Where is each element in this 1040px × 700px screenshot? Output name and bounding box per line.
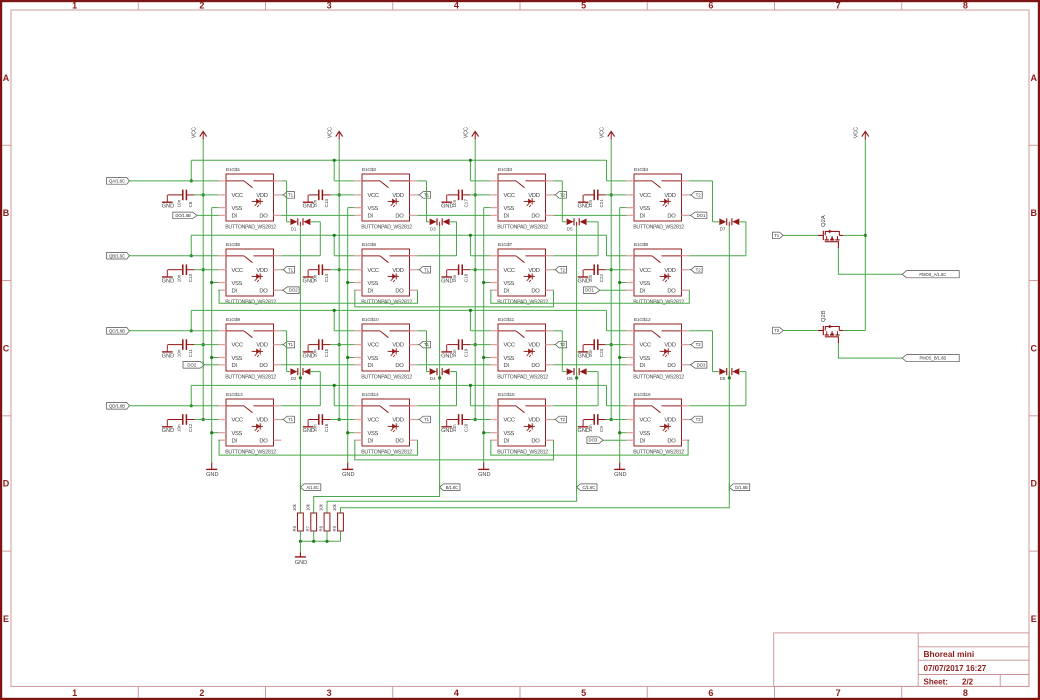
wire VCC pin net C10 to B1G$5 (194, 269, 218, 271)
dual diode D7 (719, 218, 739, 231)
svg-text:BUTTONPAD_WS2812: BUTTONPAD_WS2812 (361, 299, 412, 305)
wire D7 to B1G$8 switch (689, 222, 746, 256)
svg-text:VDD: VDD (664, 268, 675, 274)
svg-text:VCC: VCC (232, 268, 243, 274)
wire B1G$6 DO to B1G$5 DI (218, 290, 417, 303)
wire column C to R8 (327, 487, 577, 513)
svg-text:6: 6 (708, 688, 713, 698)
svg-text:8: 8 (963, 688, 968, 698)
svg-text:DO: DO (259, 438, 268, 444)
svg-text:BUTTONPAD_WS2812: BUTTONPAD_WS2812 (361, 449, 412, 455)
svg-text:VSS: VSS (504, 431, 515, 437)
svg-text:DI: DI (368, 288, 374, 294)
svg-text:D/1.6B: D/1.6B (735, 485, 748, 490)
svg-text:C: C (3, 343, 10, 353)
dual diode D8 (719, 368, 739, 381)
svg-text:C11: C11 (188, 349, 193, 358)
svg-text:GND: GND (295, 560, 307, 566)
svg-text:DO: DO (259, 363, 268, 369)
wire VCC pin net C20 to B1G$15 (470, 419, 490, 421)
svg-text:4: 4 (454, 1, 459, 11)
svg-text:C: C (1030, 343, 1037, 353)
svg-text:T2: T2 (560, 417, 566, 422)
wire D1 to B1G$5 switch (281, 222, 320, 256)
ground GND column 3 (478, 463, 490, 479)
svg-text:B1G$13: B1G$13 (226, 392, 243, 398)
svg-text:DO1: DO1 (585, 288, 594, 293)
svg-text:VCC: VCC (232, 418, 243, 424)
capacitor C13 10n (309, 190, 331, 208)
svg-text:GND: GND (162, 278, 174, 284)
svg-text:B1G$1: B1G$1 (226, 167, 241, 173)
svg-text:VDD: VDD (664, 343, 675, 349)
wire VCC pin net C13 to B1G$2 (330, 194, 354, 196)
svg-text:GND: GND (162, 204, 174, 210)
svg-text:D: D (3, 479, 10, 489)
svg-text:DO3: DO3 (697, 362, 706, 367)
svg-text:R8: R8 (319, 525, 324, 531)
wire D6 to B1G$15 switch (553, 372, 598, 406)
net label A/1.6C (300, 483, 320, 492)
svg-text:B1G$4: B1G$4 (634, 167, 649, 173)
ground GND at C11 (162, 345, 174, 360)
svg-text:BUTTONPAD_WS2812: BUTTONPAD_WS2812 (225, 224, 276, 230)
IC B1G$7 BUTTONPAD_WS2812 (490, 242, 553, 305)
wire B1G$1 VDD to T1 (281, 194, 283, 196)
svg-text:T1: T1 (288, 342, 294, 347)
wire resistor ground bus (299, 540, 341, 553)
dual diode D2 (290, 368, 310, 381)
svg-text:DI: DI (232, 438, 238, 444)
wire B1G$11 DO to B1G$12 DI (553, 364, 626, 366)
wire VCC pin net C23 to B1G$12 (606, 344, 627, 346)
svg-text:BUTTONPAD_WS2812: BUTTONPAD_WS2812 (225, 374, 276, 380)
net label T2 at B1G$3 (555, 192, 566, 199)
net label T1 at B1G$5 (283, 266, 294, 273)
net label T2 at B1G$16 (691, 416, 702, 423)
svg-text:D2: D2 (291, 376, 297, 381)
wire B1G$7 VDD to T2 (553, 269, 555, 271)
svg-text:T2: T2 (696, 417, 702, 422)
capacitor C15 10n (309, 339, 331, 357)
capacitor C18 10n (447, 264, 470, 282)
svg-text:VSS: VSS (504, 206, 515, 212)
svg-text:VSS: VSS (368, 356, 379, 362)
wire Q2B drain to PMOS_B (838, 343, 902, 358)
svg-text:Q2A: Q2A (821, 215, 827, 227)
svg-text:C8: C8 (188, 201, 193, 207)
wire column sense line D (728, 226, 731, 487)
svg-text:VSS: VSS (504, 356, 515, 362)
wire B1G$1 DO to B1G$2 DI (281, 214, 354, 216)
svg-text:VDD: VDD (392, 418, 403, 424)
svg-text:BUTTONPAD_WS2812: BUTTONPAD_WS2812 (497, 449, 548, 455)
svg-text:VCC: VCC (504, 418, 515, 424)
svg-text:B1G$7: B1G$7 (498, 242, 513, 248)
svg-text:VDD: VDD (528, 268, 539, 274)
dual diode D6 (567, 368, 587, 381)
wire column sense line B (438, 226, 441, 487)
net label T2 at B1G$12 (691, 341, 702, 348)
svg-text:B1G$5: B1G$5 (226, 242, 241, 248)
svg-text:C17: C17 (464, 199, 469, 208)
svg-text:T1: T1 (288, 267, 294, 272)
net label C/1.6C (577, 483, 597, 492)
resistor R8 10k (319, 503, 330, 541)
svg-text:B1G$2: B1G$2 (362, 167, 377, 173)
net label B/1.6C (440, 483, 460, 492)
svg-text:DO: DO (395, 214, 404, 220)
wire column A to R6 (299, 487, 301, 513)
svg-text:10n: 10n (176, 274, 181, 282)
resistor R7 10k (305, 503, 316, 541)
svg-text:2/2: 2/2 (962, 677, 974, 686)
ground GND at C21 (577, 195, 589, 210)
wire B1G$4 VDD to T2 (689, 194, 691, 196)
svg-text:BUTTONPAD_WS2812: BUTTONPAD_WS2812 (633, 374, 684, 380)
resistor R6 10k (292, 503, 303, 541)
svg-text:C9: C9 (599, 426, 604, 432)
svg-text:T2: T2 (560, 267, 566, 272)
svg-text:10k: 10k (332, 503, 337, 511)
svg-text:DI: DI (640, 363, 646, 369)
svg-text:VCC: VCC (328, 127, 334, 138)
dual diode D3 (430, 218, 450, 231)
svg-text:BUTTONPAD_WS2812: BUTTONPAD_WS2812 (361, 374, 412, 380)
svg-text:VCC: VCC (368, 268, 379, 274)
svg-text:E: E (3, 614, 9, 624)
svg-text:GND: GND (162, 428, 174, 434)
svg-text:8: 8 (963, 1, 968, 11)
svg-text:B1G$10: B1G$10 (362, 317, 379, 323)
wire VSS chain column 1 (210, 208, 218, 463)
svg-text:E: E (1031, 614, 1037, 624)
ground GND at C23 (577, 345, 589, 360)
wire VCC pin net C9 to B1G$16 (606, 419, 627, 421)
svg-text:D4: D4 (430, 376, 436, 381)
svg-text:BUTTONPAD_WS2812: BUTTONPAD_WS2812 (225, 299, 276, 305)
svg-text:10n: 10n (176, 424, 181, 432)
svg-text:DO2: DO2 (187, 362, 196, 367)
svg-text:DI: DI (504, 438, 510, 444)
svg-text:QA/1.6C: QA/1.6C (109, 179, 125, 184)
svg-text:10n: 10n (176, 199, 181, 207)
svg-text:3: 3 (327, 688, 332, 698)
ground GND column 4 (614, 463, 626, 479)
svg-text:C14: C14 (324, 273, 329, 282)
wire B1G$9 VDD to T1 (281, 344, 283, 346)
svg-text:VCC: VCC (232, 193, 243, 199)
wire B1G$3 switch to D5 (553, 181, 566, 222)
wire VCC pin net C19 to B1G$11 (470, 344, 490, 346)
svg-text:GND: GND (577, 204, 589, 210)
power VCC symbol 4 (600, 127, 615, 140)
ground GND column 2 (342, 463, 354, 479)
IC B1G$1 BUTTONPAD_WS2812 (218, 167, 281, 230)
svg-text:DO: DO (531, 438, 540, 444)
svg-text:GND: GND (302, 353, 314, 359)
svg-text:VCC: VCC (600, 127, 606, 138)
svg-text:2: 2 (199, 1, 204, 11)
ground GND at C10 (162, 270, 174, 285)
svg-text:DI: DI (368, 363, 374, 369)
svg-text:C21: C21 (599, 199, 604, 208)
svg-text:R9: R9 (332, 525, 337, 531)
svg-text:VDD: VDD (256, 343, 267, 349)
wire column D to R9 (341, 487, 730, 513)
svg-text:T2: T2 (696, 193, 702, 198)
IC B1G$13 BUTTONPAD_WS2812 (218, 392, 281, 455)
wire VCC column 2 vertical (338, 140, 341, 421)
ground GND at C22 (577, 270, 589, 285)
capacitor C21 10n (584, 190, 606, 208)
svg-text:DO: DO (395, 363, 404, 369)
svg-text:VDD: VDD (664, 193, 675, 199)
wire VCC column 3 vertical (474, 140, 477, 421)
svg-text:D7: D7 (720, 226, 726, 231)
svg-text:VSS: VSS (232, 281, 243, 287)
svg-text:2: 2 (199, 688, 204, 698)
wire B1G$5 DO to DO2 label (281, 289, 284, 291)
svg-text:VCC: VCC (640, 418, 651, 424)
power VCC symbol 3 (464, 127, 479, 140)
wire VCC pin net C18 to B1G$7 (470, 269, 490, 271)
wire B1G$6 VDD to T1 (417, 269, 419, 271)
wire B1G$7 DO to B1G$6 DI (354, 290, 553, 307)
svg-text:VSS: VSS (368, 206, 379, 212)
svg-text:B1G$16: B1G$16 (634, 392, 651, 398)
svg-text:Bhoreal mini: Bhoreal mini (924, 649, 975, 659)
svg-text:BUTTONPAD_WS2812: BUTTONPAD_WS2812 (361, 224, 412, 230)
svg-text:B1G$14: B1G$14 (362, 392, 379, 398)
capacitor C10 10n (168, 264, 195, 282)
svg-text:DI: DI (640, 438, 646, 444)
svg-text:T1: T1 (774, 233, 780, 238)
svg-text:VDD: VDD (256, 418, 267, 424)
svg-text:C/1.6C: C/1.6C (582, 485, 595, 490)
wire D5 to B1G$7 switch (553, 222, 598, 256)
resistor R9 10k (332, 503, 343, 541)
svg-text:VCC: VCC (368, 193, 379, 199)
ground GND at C12 (162, 420, 174, 435)
svg-text:VCC: VCC (640, 268, 651, 274)
capacitor C16 10n (309, 414, 331, 432)
capacitor C12 10n (168, 414, 195, 432)
IC B1G$10 BUTTONPAD_WS2812 (354, 317, 417, 380)
svg-text:VCC: VCC (192, 127, 198, 138)
ground GND at C16 (302, 420, 314, 435)
capacitor C23 10n (584, 339, 606, 357)
svg-text:GND: GND (577, 428, 589, 434)
net label QB/1.6C (107, 252, 130, 259)
wire B1G$10 switch to D4 (417, 331, 429, 372)
net label QC/1.6B (107, 328, 130, 335)
svg-text:DO: DO (531, 214, 540, 220)
wire VCC pin net C11 to B1G$9 (194, 344, 218, 346)
svg-text:GND: GND (342, 472, 354, 478)
ground GND at C18 (441, 270, 453, 285)
IC B1G$11 BUTTONPAD_WS2812 (490, 317, 553, 380)
wire B1G$8 VDD to T2 (689, 269, 691, 271)
svg-text:6: 6 (708, 1, 713, 11)
svg-text:VCC: VCC (368, 418, 379, 424)
ground GND at resistors (295, 553, 307, 566)
svg-text:DO: DO (259, 214, 268, 220)
net label QA/1.6C (107, 178, 130, 185)
svg-text:DO: DO (667, 363, 676, 369)
svg-text:GND: GND (441, 204, 453, 210)
net label PMOS_A/1.6C (902, 271, 959, 278)
svg-text:GND: GND (614, 472, 626, 478)
svg-text:1: 1 (72, 688, 77, 698)
IC B1G$12 BUTTONPAD_WS2812 (626, 317, 689, 380)
svg-text:VDD: VDD (392, 268, 403, 274)
svg-text:T2: T2 (696, 267, 702, 272)
svg-text:DO: DO (531, 288, 540, 294)
svg-text:7: 7 (836, 688, 841, 698)
wire B1G$2 VDD to T1 (417, 194, 419, 196)
svg-text:10k: 10k (319, 503, 324, 511)
svg-text:VSS: VSS (640, 431, 651, 437)
svg-text:DO: DO (395, 288, 404, 294)
wire VSS chain column 4 (618, 208, 626, 463)
svg-text:VCC: VCC (504, 193, 515, 199)
svg-text:A: A (1030, 73, 1037, 83)
svg-text:VCC: VCC (464, 127, 470, 138)
svg-text:7: 7 (836, 1, 841, 11)
IC B1G$15 BUTTONPAD_WS2812 (490, 392, 553, 455)
svg-text:D5: D5 (567, 226, 573, 231)
svg-text:T1: T1 (424, 267, 430, 272)
svg-text:GND: GND (162, 353, 174, 359)
svg-text:T1: T1 (424, 417, 430, 422)
svg-text:BUTTONPAD_WS2812: BUTTONPAD_WS2812 (633, 224, 684, 230)
dual diode D1 (290, 218, 310, 231)
IC B1G$16 BUTTONPAD_WS2812 (626, 392, 689, 455)
svg-text:C20: C20 (464, 423, 469, 432)
svg-text:DI: DI (504, 363, 510, 369)
svg-text:VSS: VSS (504, 281, 515, 287)
svg-text:DO: DO (395, 438, 404, 444)
svg-text:DO/1.6B: DO/1.6B (175, 213, 191, 218)
svg-text:B1G$12: B1G$12 (634, 317, 651, 323)
svg-text:C23: C23 (599, 348, 604, 357)
svg-text:GND: GND (441, 353, 453, 359)
net label DO1 (row 2) (584, 287, 600, 294)
svg-text:D: D (1030, 479, 1037, 489)
wire VSS chain column 3 (482, 208, 490, 463)
svg-text:GND: GND (577, 353, 589, 359)
svg-text:BUTTONPAD_WS2812: BUTTONPAD_WS2812 (633, 299, 684, 305)
wire B1G$4 DO to DO1 label (689, 214, 692, 216)
wire VCC column 1 vertical (202, 140, 205, 421)
transistor Q2A PMOS (818, 215, 843, 248)
svg-text:A: A (3, 73, 10, 83)
wire row select bus QA (129, 159, 626, 183)
svg-text:VSS: VSS (232, 206, 243, 212)
net label T2 at Q2B gate (773, 327, 784, 334)
svg-text:VDD: VDD (256, 193, 267, 199)
wire B1G$12 DO to DO3 label (689, 364, 692, 366)
svg-text:BUTTONPAD_WS2812: BUTTONPAD_WS2812 (633, 449, 684, 455)
svg-text:VCC: VCC (640, 343, 651, 349)
svg-text:BUTTONPAD_WS2812: BUTTONPAD_WS2812 (497, 299, 548, 305)
svg-text:DO3: DO3 (588, 438, 597, 443)
IC B1G$2 BUTTONPAD_WS2812 (354, 167, 417, 230)
svg-text:DO: DO (667, 438, 676, 444)
svg-text:Sheet:: Sheet: (924, 677, 948, 686)
wire D3 to B1G$6 switch (417, 222, 456, 256)
wire VSS chain column 2 (346, 208, 354, 463)
svg-text:DI: DI (504, 214, 510, 220)
svg-text:VSS: VSS (368, 281, 379, 287)
capacitor C22 10n (584, 264, 606, 282)
capacitor C17 10n (447, 190, 470, 208)
svg-text:1: 1 (72, 1, 77, 11)
wire D2 to B1G$13 switch (281, 372, 320, 406)
svg-text:VCC: VCC (640, 193, 651, 199)
net label T2 at B1G$4 (691, 192, 702, 199)
power VCC symbol 2 (328, 127, 343, 140)
svg-text:4: 4 (454, 688, 459, 698)
wire B1G$3 VDD to T2 (553, 194, 555, 196)
dual diode D4 (430, 368, 450, 381)
wire row select bus QC (129, 309, 626, 333)
wire B1G$8 DO to B1G$7 DI (490, 290, 689, 303)
wire B1G$2 DO to B1G$3 DI (417, 214, 490, 216)
svg-text:DO2: DO2 (289, 288, 298, 293)
ground GND at C9 (577, 420, 589, 435)
svg-text:C12: C12 (188, 423, 193, 432)
capacitor C9 10n (584, 414, 606, 432)
wire B1G$12 switch to D8 (689, 331, 719, 372)
wire B1G$16 VDD to T2 (689, 419, 691, 421)
svg-text:DO: DO (667, 288, 676, 294)
wire B1G$5 VDD to T1 (281, 269, 283, 271)
IC B1G$5 BUTTONPAD_WS2812 (218, 242, 281, 305)
svg-text:VDD: VDD (664, 418, 675, 424)
wire VCC to Q2A/Q2B (864, 140, 867, 331)
svg-text:VCC: VCC (368, 343, 379, 349)
svg-text:5: 5 (581, 688, 586, 698)
IC B1G$8 BUTTONPAD_WS2812 (626, 242, 689, 305)
svg-text:BUTTONPAD_WS2812: BUTTONPAD_WS2812 (225, 449, 276, 455)
svg-text:GND: GND (302, 278, 314, 284)
svg-text:DO: DO (531, 363, 540, 369)
wire B1G$12 VDD to T2 (689, 344, 691, 346)
net label T2 at B1G$15 (555, 416, 566, 423)
wire VCC pin net C22 to B1G$8 (606, 269, 627, 271)
svg-text:C13: C13 (324, 199, 329, 208)
wire B1G$11 switch to D6 (553, 331, 566, 372)
ground GND at C13 (302, 195, 314, 210)
IC B1G$3 BUTTONPAD_WS2812 (490, 167, 553, 230)
svg-text:DI: DI (232, 214, 238, 220)
net label DO1 (691, 212, 707, 219)
svg-text:QD/1.6B: QD/1.6B (109, 403, 125, 408)
wire Q2A drain to PMOS_A (838, 248, 902, 274)
net label DO3 (row 4) (587, 437, 603, 444)
svg-text:C16: C16 (324, 423, 329, 432)
svg-text:3: 3 (327, 1, 332, 11)
wire B1G$1 switch to D1 (281, 181, 290, 222)
net label DO2 (row 2) (283, 287, 299, 294)
net label T1 at B1G$13 (283, 416, 294, 423)
wire B1G$9 DO to B1G$10 DI (281, 364, 354, 366)
svg-text:T1: T1 (288, 193, 294, 198)
svg-text:DO1: DO1 (697, 213, 706, 218)
svg-text:DO: DO (259, 288, 268, 294)
